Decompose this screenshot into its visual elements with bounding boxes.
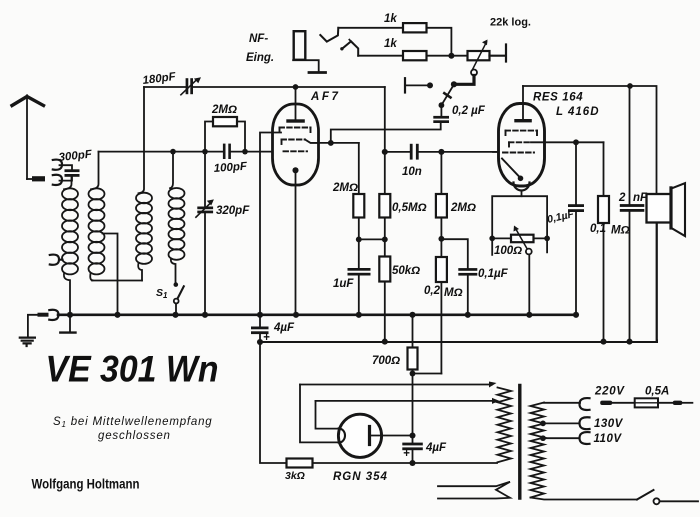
capacitor 4uF filter [251,315,269,342]
svg-text:S1 bei Mittelwellenempfang: S1 bei Mittelwellenempfang [53,416,213,429]
capacitor 4uF RGN [402,432,423,466]
filament box 100 ohm [489,196,550,255]
bus line 2 [257,224,657,346]
wire HT to transformer upper [300,382,497,443]
wire coil2-coil3 bottom link [92,280,142,282]
capacitor C 300pF [60,165,80,180]
bus line 1 [58,312,579,318]
wire anode to 0.2uF [331,122,441,143]
wire 700ohm to 4uF2 [412,374,414,436]
svg-text:2: 2 [618,192,626,204]
svg-text:Wolfgang Holtmann: Wolfgang Holtmann [32,477,140,492]
filament winding RGN [438,482,510,499]
wire bias link [410,371,442,377]
potentiometer 100 ohm [511,226,534,315]
jack switch blade upper [320,28,403,42]
resistor 2M anode [353,143,364,240]
volume switch [439,76,475,109]
svg-text:220V: 220V [594,386,625,398]
variable capacitor 320pF [196,152,214,315]
capacitor 0.1uF AF7 [441,239,477,315]
svg-text:Eing.: Eing. [246,52,274,64]
ground plug and earth [20,313,49,346]
NF input jack [293,31,325,72]
transformer core [518,386,521,499]
resistor 0.5M [379,152,390,257]
svg-text:4µF: 4µF [425,442,447,454]
resistor 0.2M [436,236,447,374]
wire RES grid [493,151,499,153]
speaker [647,183,686,340]
coil L4 [169,152,185,283]
jack switch blade lower [340,40,403,56]
fuse 0.5A [600,398,692,407]
svg-text:L 416D: L 416D [556,106,600,118]
capacitor 10n [382,144,499,160]
coil L2 [89,152,105,281]
wire left column down [260,342,287,463]
resistor 0.1M [598,142,609,341]
tube RGN354 [338,414,412,457]
svg-text:MΩ: MΩ [611,225,630,237]
resistor 2M right [436,152,447,257]
tube RES164 [499,86,545,196]
svg-text:0,2: 0,2 [424,285,441,297]
svg-text:4µF: 4µF [273,322,295,334]
svg-text:geschlossen: geschlossen [98,430,171,442]
svg-text:100pF: 100pF [213,161,248,175]
mains tap 130V [540,417,589,429]
capacitor 2nF [620,86,645,341]
svg-text:1k: 1k [384,13,397,25]
coil L3 [136,87,152,281]
svg-text:+: + [403,448,410,460]
resistor 50k [379,257,390,342]
capacitor 0.1uF RES [545,139,604,314]
mains tap 220V [544,398,590,410]
svg-text:0,5A: 0,5A [645,386,669,398]
svg-text:10n: 10n [402,166,422,178]
svg-text:0,2 µF: 0,2 µF [452,105,486,117]
wire 1k junction [427,28,468,59]
chassis stub [60,315,75,333]
svg-text:110V: 110V [594,433,623,445]
svg-text:50kΩ: 50kΩ [392,265,420,277]
tube AF7 [260,84,319,315]
svg-text:700Ω: 700Ω [372,355,400,367]
trimmer capacitor 180pF with top wire [144,77,385,95]
wire HT to transformer lower [316,398,500,429]
capacitor 100pF [223,144,231,159]
ground socket [49,310,58,320]
resistor 1k lower [403,51,427,60]
svg-text:22k log.: 22k log. [490,17,531,29]
svg-text:0,5MΩ: 0,5MΩ [392,202,427,214]
antenna socket upper [53,160,62,170]
svg-text:MΩ: MΩ [444,287,463,299]
svg-text:1uF: 1uF [333,278,354,290]
svg-text:RGN 354: RGN 354 [333,471,388,483]
svg-text:AF7: AF7 [310,91,341,103]
wire AF7 anode [319,140,359,146]
wire RES anode top [523,83,657,194]
capacitor 0.2uF [433,105,449,123]
wire grid line y151.6 [99,149,273,155]
mains tap 110V [540,432,589,444]
switch stub contact [405,78,433,92]
capacitor 1uF [348,239,371,314]
switch S1 [174,282,184,314]
wire 2M-0.5M link [356,236,388,242]
resistor 2M grid [205,117,245,152]
wire y87 to 10n junction [384,87,386,152]
svg-text:0,1µF: 0,1µF [478,268,509,280]
resistor 3k [287,459,498,468]
svg-text:2MΩ: 2MΩ [211,104,237,116]
svg-text:3kΩ: 3kΩ [285,470,305,482]
svg-text:100Ω: 100Ω [494,245,522,257]
transformer HT winding [498,388,512,463]
svg-text:RES 164: RES 164 [533,92,583,104]
svg-text:130V: 130V [594,418,624,430]
wire coil2 tap [103,234,118,315]
coil L1 [62,181,78,315]
mains switch [531,490,699,504]
svg-text:2MΩ: 2MΩ [450,202,476,214]
transformer mains winding [531,403,545,498]
svg-text:0,1: 0,1 [590,223,606,235]
svg-text:2MΩ: 2MΩ [332,182,358,194]
svg-text:320pF: 320pF [216,205,250,217]
coil L1 tap socket [50,255,63,265]
resistor 1k upper [403,23,427,32]
potentiometer 22k [468,40,507,76]
svg-text:NF-: NF- [249,33,268,45]
resistor 700 ohm [408,315,418,374]
antenna socket lower [53,175,62,185]
svg-text:1k: 1k [384,38,397,50]
svg-text:VE 301 Wn: VE 301 Wn [46,349,219,390]
antenna [12,97,45,182]
